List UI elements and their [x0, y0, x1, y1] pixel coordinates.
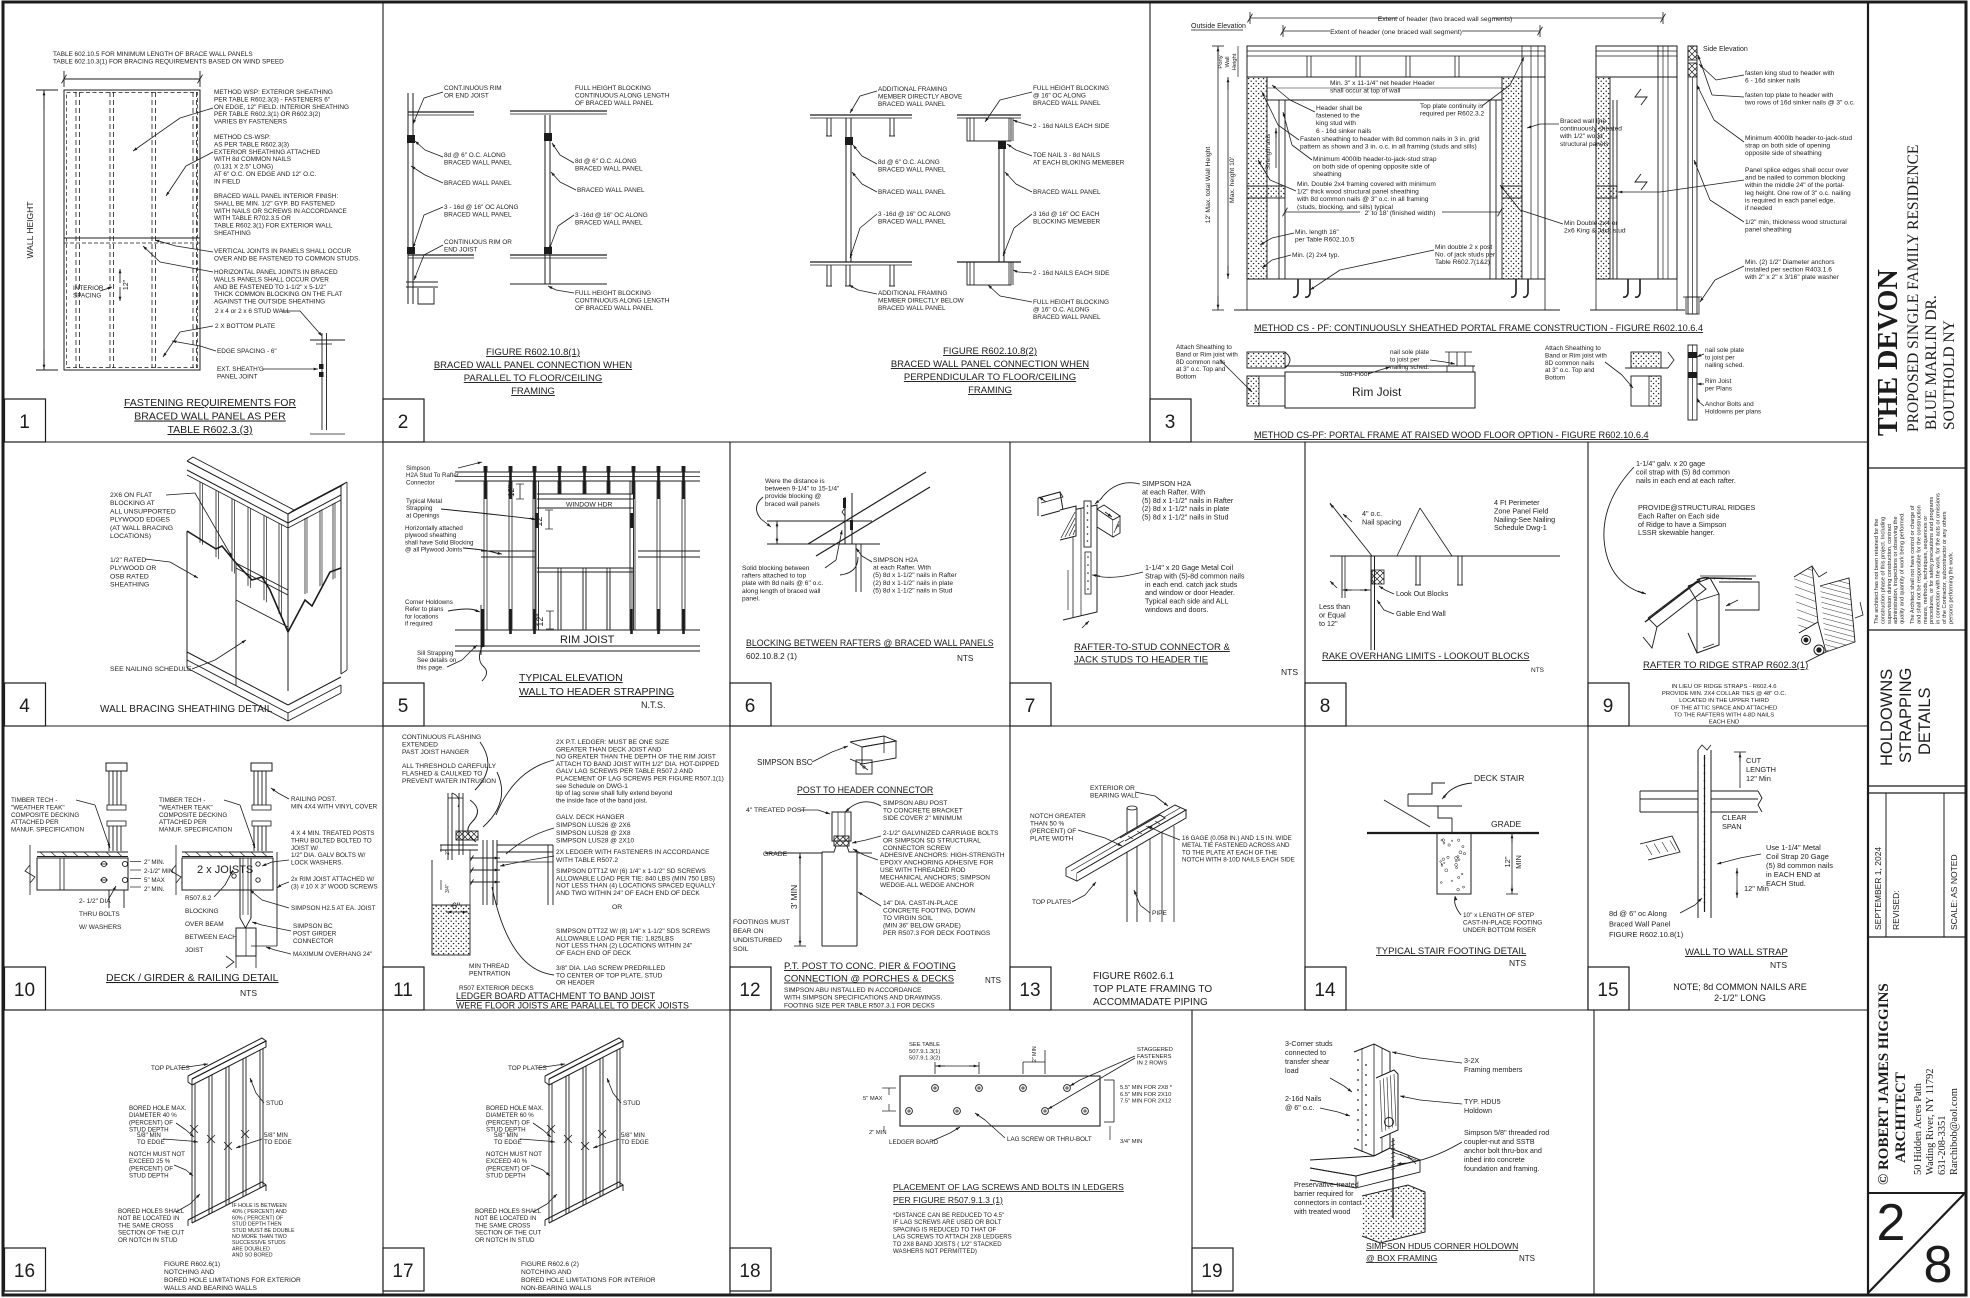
panel 3 finished width dim [1285, 211, 1360, 213]
svg-text:The Architect shall not have c: The Architect shall not have control or … [1910, 505, 1916, 624]
svg-text:PLYWOOD EDGES: PLYWOOD EDGES [110, 517, 170, 524]
grid col row4 [382, 1010, 384, 1295]
panel 3 main frame outline [1247, 46, 1545, 279]
svg-text:SOIL: SOIL [733, 946, 749, 953]
grid col row1 b [1149, 4, 1151, 443]
svg-text:2- 1/2" DIA: 2- 1/2" DIA [79, 898, 111, 905]
svg-text:NTS: NTS [1281, 667, 1298, 677]
svg-text:TABLE 602.10.5 FOR MINIMUM LEN: TABLE 602.10.5 FOR MINIMUM LENGTH OF BRA… [53, 51, 253, 58]
svg-text:OF BRACED WALL PANEL: OF BRACED WALL PANEL [575, 100, 654, 107]
panel number box 9 [1588, 683, 1629, 726]
svg-text:PROVIDE MIN. 2X4 COLLAR TIES @: PROVIDE MIN. 2X4 COLLAR TIES @ 48" O.C. [1662, 691, 1787, 697]
svg-text:per Table R602.10.5: per Table R602.10.5 [1295, 237, 1355, 244]
panel 9 ridge board box [1688, 578, 1719, 653]
svg-text:(MIN 36" BELOW GRADE): (MIN 36" BELOW GRADE) [883, 923, 961, 930]
svg-text:ADDITIONAL FRAMING: ADDITIONAL FRAMING [878, 86, 947, 93]
svg-text:SIMPSON DTT2Z W/ (8) 1/4" x 1-: SIMPSON DTT2Z W/ (8) 1/4" x 1-1/2" SDS S… [556, 928, 711, 935]
panel number box 7 [1010, 683, 1051, 726]
panel 11 flashing squiggle [468, 800, 478, 842]
svg-text:GALV. DECK HANGER: GALV. DECK HANGER [556, 814, 625, 821]
panel 15 vertical stud [1697, 750, 1699, 918]
grid col row2 [1009, 442, 1011, 726]
svg-text:(5) 8d x 1-1/2" nails in Stud: (5) 8d x 1-1/2" nails in Stud [1142, 513, 1228, 522]
svg-text:shall have Solid Blocking: shall have Solid Blocking [405, 539, 474, 546]
svg-text:BORED HOLES SHALL: BORED HOLES SHALL [475, 1208, 542, 1215]
panel 10 left bolts [101, 861, 106, 866]
svg-text:14" DIA. CAST-IN-PLACE: 14" DIA. CAST-IN-PLACE [883, 900, 959, 907]
svg-text:3 16d @ 16" OC EACH: 3 16d @ 16" OC EACH [1033, 211, 1100, 218]
panel 7 corner column jack studs [1063, 505, 1097, 620]
svg-text:BORED HOLE MAX.: BORED HOLE MAX. [486, 1105, 544, 1112]
panel 12 pier footing [822, 852, 857, 946]
panel 13 top plates diagonal beam [1066, 805, 1186, 873]
svg-text:BRACED WALL PANEL: BRACED WALL PANEL [878, 166, 946, 173]
panel 3 right leg splice block [1502, 186, 1522, 198]
svg-text:BLUE MARLIN DR.: BLUE MARLIN DR. [1923, 295, 1940, 430]
svg-text:FRAMING: FRAMING [511, 386, 555, 397]
svg-text:(PERCENT) OF: (PERCENT) OF [486, 1165, 530, 1172]
svg-text:2 - 16d NAILS EACH SIDE: 2 - 16d NAILS EACH SIDE [1033, 123, 1109, 130]
svg-text:with 2" x 2" x 3/16" plate was: with 2" x 2" x 3/16" plate washer [1744, 274, 1840, 281]
svg-text:2X6 ON FLAT: 2X6 ON FLAT [110, 492, 152, 499]
svg-text:nail sole plate: nail sole plate [1705, 347, 1745, 354]
svg-text:sheathing: sheathing [1313, 171, 1342, 178]
svg-text:BORED HOLES SHALL: BORED HOLES SHALL [118, 1208, 185, 1215]
svg-text:SHEATHING: SHEATHING [214, 230, 251, 237]
grid row line 2 [5, 725, 1869, 727]
svg-text:Top plate continuity is: Top plate continuity is [1420, 103, 1484, 110]
svg-text:CONNECTION @ PORCHES & DECKS: CONNECTION @ PORCHES & DECKS [784, 974, 954, 985]
grid col row2 [729, 442, 731, 726]
svg-text:THAN 50 %: THAN 50 % [1030, 821, 1065, 828]
svg-text:Fasten sheathing to header wit: Fasten sheathing to header with 8d commo… [1300, 136, 1480, 143]
svg-text:PIPE: PIPE [1152, 910, 1167, 917]
svg-text:GREATER THAN DECK JOIST AND: GREATER THAN DECK JOIST AND [556, 746, 662, 753]
svg-text:at 3" o.c. Top and: at 3" o.c. Top and [1545, 367, 1595, 374]
svg-text:Attach Sheathing to: Attach Sheathing to [1545, 345, 1601, 352]
svg-text:3-Corner studs: 3-Corner studs [1285, 1039, 1333, 1048]
svg-text:EXTERIOR SHEATHING ATTACHED: EXTERIOR SHEATHING ATTACHED [214, 149, 321, 156]
svg-text:CONNECTOR SCREW: CONNECTOR SCREW [883, 845, 952, 852]
svg-text:IN LIEU OF RIDGE STRAPS - R60: IN LIEU OF RIDGE STRAPS - R602.4.6 [1671, 684, 1777, 690]
lower sole plate studs [1448, 352, 1450, 366]
svg-text:3/4": 3/4" [445, 884, 451, 893]
svg-text:DIAMETER 40 %: DIAMETER 40 % [129, 1112, 177, 1119]
svg-text:PLACEMENT OF LAG SCREWS PER FI: PLACEMENT OF LAG SCREWS PER FIGURE R507.… [556, 776, 724, 783]
svg-text:between 9-1/4" to 15-1/4": between 9-1/4" to 15-1/4" [765, 486, 840, 493]
svg-text:IF HOLE IS BETWEEN: IF HOLE IS BETWEEN [232, 1203, 287, 1209]
svg-text:WITH NAILS OR SCREWS IN ACCORD: WITH NAILS OR SCREWS IN ACCORDANCE [214, 208, 347, 215]
notch and hole marks [547, 1125, 555, 1133]
svg-text:ADDITIONAL FRAMING: ADDITIONAL FRAMING [878, 290, 947, 297]
svg-text:SIMPSON H2A: SIMPSON H2A [873, 557, 919, 564]
panel number box 6 [730, 683, 771, 726]
svg-text:in connection with the work, f: in connection with the work, for the act… [1936, 493, 1942, 624]
svg-text:ALLOWABLE LOAD PER TIE: 1,825L: ALLOWABLE LOAD PER TIE: 1,825LBS [556, 935, 674, 942]
svg-text:13: 13 [1019, 980, 1040, 1001]
svg-text:SECTION OF THE CUT: SECTION OF THE CUT [118, 1230, 184, 1237]
panel 8 nail spacing arrows [1343, 514, 1352, 522]
svg-text:with 8d common nails @ 3" o.c.: with 8d common nails @ 3" o.c. in all fr… [1296, 196, 1429, 203]
svg-text:JOIST: JOIST [185, 947, 203, 954]
svg-text:Attach Sheathing to: Attach Sheathing to [1176, 344, 1232, 351]
svg-text:FIGURE R602.6.1: FIGURE R602.6.1 [1093, 971, 1175, 982]
svg-text:5/8" MIN: 5/8" MIN [621, 1132, 645, 1139]
panel 6 rafters diagonal [808, 472, 926, 544]
grid col row3 [1304, 726, 1306, 1010]
svg-text:WALL TO HEADER STRAPPING: WALL TO HEADER STRAPPING [519, 686, 674, 698]
svg-text:50 Hidden Acres Path: 50 Hidden Acres Path [1913, 1082, 1924, 1175]
svg-text:1: 1 [19, 412, 30, 433]
svg-text:N.T.S.: N.T.S. [641, 700, 666, 710]
svg-text:THE SAME CROSS: THE SAME CROSS [118, 1222, 173, 1229]
svg-text:NTS: NTS [1770, 960, 1787, 970]
svg-text:NTS: NTS [1509, 958, 1526, 968]
svg-text:Sill Strapping: Sill Strapping [417, 650, 454, 657]
panel 10 girder below [236, 928, 256, 956]
svg-text:OF EACH END OF DECK: OF EACH END OF DECK [556, 950, 632, 957]
svg-text:AGAINST THE OUTSIDE SHEATHING: AGAINST THE OUTSIDE SHEATHING [214, 299, 325, 306]
panel number box 3 [1150, 399, 1191, 442]
panel 14 grade line [1367, 832, 1539, 834]
svg-text:10" x LENGTH OF STEP: 10" x LENGTH OF STEP [1463, 912, 1534, 919]
svg-text:MEMBER DIRECTLY BELOW: MEMBER DIRECTLY BELOW [878, 297, 965, 304]
svg-text:WALLS AND BEARING WALLS: WALLS AND BEARING WALLS [164, 1285, 258, 1292]
panel 4 sheathing torn edge left wall [187, 531, 288, 632]
svg-text:WITH SIMPSON SPECIFICATIONS AN: WITH SIMPSON SPECIFICATIONS AND DRAWINGS… [784, 995, 942, 1002]
svg-text:to joist per: to joist per [1705, 354, 1735, 361]
panel 3 left dim lines [1217, 46, 1219, 310]
svg-text:MIN 4X4 WITH VINYL COVER: MIN 4X4 WITH VINYL COVER [291, 803, 378, 810]
panel 3 pony wall studs [1306, 56, 1308, 77]
grid col row1 a [382, 4, 384, 443]
svg-text:2: 2 [1877, 1194, 1906, 1252]
panel 5 blocking rows [481, 550, 535, 552]
panel 15 coil strap dotted [1704, 755, 1706, 912]
panel 5 top plates [455, 471, 700, 473]
panel number box 13 [1010, 967, 1051, 1010]
svg-text:15: 15 [1597, 980, 1618, 1001]
svg-text:shall occur at top of wall: shall occur at top of wall [1330, 88, 1401, 95]
svg-text:2" MIN.: 2" MIN. [144, 859, 165, 866]
svg-text:BORED HOLE LIMITATIONS FOR INT: BORED HOLE LIMITATIONS FOR INTERIOR [521, 1277, 656, 1284]
svg-text:NTS: NTS [240, 988, 257, 998]
svg-text:TO 2X8 BAND JOISTS ( 1/2" STAC: TO 2X8 BAND JOISTS ( 1/2" STACKED [893, 1241, 1002, 1248]
lower main rim joist band [1285, 365, 1475, 367]
svg-text:2-1/2" MIN.: 2-1/2" MIN. [144, 868, 175, 875]
svg-text:Minimum 4000lb header-to-jack-: Minimum 4000lb header-to-jack-stud [1745, 135, 1852, 142]
svg-text:per Plans: per Plans [1705, 385, 1732, 392]
svg-text:BRACED WALL PANEL CONNECTION W: BRACED WALL PANEL CONNECTION WHEN [434, 360, 632, 371]
panel 15 crossing wall left [1640, 790, 1698, 792]
svg-text:2" MIN: 2" MIN [1032, 1046, 1038, 1062]
svg-text:fastened to the: fastened to the [1316, 113, 1360, 120]
svg-text:RIM JOIST: RIM JOIST [560, 634, 615, 646]
svg-text:SEE NAILING SCHEDULE: SEE NAILING SCHEDULE [110, 666, 192, 673]
svg-text:COMPOSITE DECKING: COMPOSITE DECKING [159, 812, 227, 819]
title block section dividers [1868, 467, 1966, 469]
svg-text:PER TABLE R602.3(1) OR R602.3(: PER TABLE R602.3(1) OR R602.3(2) [214, 111, 320, 118]
panel 15 crossing wall right with break [1711, 790, 1758, 792]
svg-text:Band or Rim joist with: Band or Rim joist with [1545, 352, 1607, 359]
panel 6 blocking studs [844, 497, 846, 544]
svg-text:(PERCENT) OF: (PERCENT) OF [1030, 828, 1076, 835]
svg-text:construction phase of this pro: construction phase of this project. Incl… [1880, 517, 1886, 624]
svg-text:INTERIOR: INTERIOR [73, 285, 104, 292]
svg-text:PREVENT WATER INTRUSION: PREVENT WATER INTRUSION [402, 778, 496, 785]
svg-text:TOP PLATES: TOP PLATES [508, 1065, 547, 1072]
svg-text:panel.: panel. [742, 595, 760, 602]
svg-text:and shall not be responsible f: and shall not be responsible for the con… [1916, 505, 1922, 624]
svg-text:STRAPPING: STRAPPING [1897, 668, 1915, 763]
svg-text:8d @ 6" O.C. ALONG: 8d @ 6" O.C. ALONG [575, 158, 637, 165]
grid row line 1 [5, 441, 1869, 443]
svg-text:Holdowns per plans: Holdowns per plans [1705, 408, 1761, 415]
svg-text:TO VIRGIN SOIL: TO VIRGIN SOIL [883, 915, 933, 922]
panel 10 4x4 post and girder [239, 858, 241, 918]
svg-text:WALLS PANELS SHALL OCCUR OVER: WALLS PANELS SHALL OCCUR OVER [214, 276, 329, 283]
svg-text:6 - 16d sinker nails: 6 - 16d sinker nails [1316, 128, 1372, 135]
svg-text:(PERCENT) OF: (PERCENT) OF [129, 1119, 173, 1126]
svg-text:Side Elevation: Side Elevation [1703, 46, 1748, 53]
panel 13 metal tie [1120, 815, 1165, 841]
panel 12 3min dim [799, 853, 801, 946]
svg-text:NTS: NTS [957, 654, 974, 663]
svg-text:see Schedule on DWG-1: see Schedule on DWG-1 [556, 783, 628, 790]
svg-text:THE DEVON: THE DEVON [1873, 269, 1904, 436]
grid col row3 [1587, 726, 1589, 1010]
panel number box 4 [5, 683, 46, 726]
svg-text:5" MAX: 5" MAX [863, 1096, 883, 1102]
panel 3 middle condensed braced segment [1596, 46, 1677, 279]
svg-text:AND SO BORED: AND SO BORED [232, 1253, 273, 1259]
svg-text:8d @ 6" O.C. ALONG: 8d @ 6" O.C. ALONG [444, 152, 506, 159]
svg-text:FOOTING SIZE PER TABLE R507.3.: FOOTING SIZE PER TABLE R507.3.1 FOR DECK… [784, 1003, 935, 1010]
panel 11 deck joist [497, 851, 553, 853]
svg-text:STAGGERED: STAGGERED [1137, 1047, 1173, 1053]
svg-text:NOT LESS THAN (2) LOCATIONS WI: NOT LESS THAN (2) LOCATIONS WITHIN 24" [556, 943, 693, 950]
studs [191, 1085, 193, 1223]
svg-text:RAILING POST.: RAILING POST. [291, 796, 336, 803]
svg-text:4 X 4 MIN. TREATED POSTS: 4 X 4 MIN. TREATED POSTS [291, 830, 374, 837]
svg-text:NOT BE LOCATED IN: NOT BE LOCATED IN [118, 1215, 179, 1222]
svg-text:TO THE PLATE AT EACH OF THE: TO THE PLATE AT EACH OF THE [1182, 849, 1277, 856]
svg-text:SEE TABLE: SEE TABLE [909, 1042, 940, 1048]
panel 5 corner holdown mark [481, 609, 485, 647]
panel 1 braced wall rectangle [64, 90, 200, 370]
panel 6 plate lines [767, 520, 872, 522]
svg-text:STUD MUST BE DOUBLE: STUD MUST BE DOUBLE [232, 1228, 295, 1234]
svg-text:MAXIMUM OVERHANG 24": MAXIMUM OVERHANG 24" [293, 951, 372, 958]
svg-text:Solid blocking between: Solid blocking between [742, 565, 810, 572]
panel 7 H2A strap with nails [1084, 501, 1091, 547]
svg-text:BRACED WALL PANEL: BRACED WALL PANEL [878, 305, 946, 312]
svg-text:Min. 3" x 11-1/4" net header H: Min. 3" x 11-1/4" net header Header [1330, 80, 1435, 87]
svg-text:FIGURE R602.6 (2): FIGURE R602.6 (2) [521, 1261, 579, 1268]
panel 8 block hatch [1372, 570, 1384, 584]
svg-text:LSSR skewable hanger.: LSSR skewable hanger. [1638, 528, 1715, 537]
svg-text:8D common nails: 8D common nails [1545, 360, 1594, 367]
svg-text:(PERCENT) OF: (PERCENT) OF [486, 1119, 530, 1126]
svg-text:FIGURE R602.10.8(1): FIGURE R602.10.8(1) [1609, 930, 1684, 939]
svg-text:SIDE COVER 2" MINIMUM: SIDE COVER 2" MINIMUM [883, 815, 962, 822]
svg-text:BEAR ON: BEAR ON [733, 928, 764, 935]
panel 12 main post [832, 812, 851, 841]
svg-text:NTS: NTS [1531, 667, 1545, 674]
svg-text:LEDGER BOARD: LEDGER BOARD [889, 1139, 939, 1146]
panel 4 left blocking rows [236, 563, 288, 590]
svg-text:Min double 2 x post: Min double 2 x post [1435, 244, 1492, 251]
svg-text:strap on both side of opening: strap on both side of opening [1745, 143, 1830, 150]
svg-text:Table R602.7(1&2): Table R602.7(1&2) [1435, 259, 1490, 266]
svg-text:barrier required for: barrier required for [1294, 1189, 1354, 1198]
svg-text:PARALLEL TO FLOOR/CEILING: PARALLEL TO FLOOR/CEILING [464, 373, 603, 384]
svg-text:Pony: Pony [1218, 55, 1224, 68]
svg-text:OR NOTCH IN STUD: OR NOTCH IN STUD [475, 1237, 535, 1244]
panel 3 left leg splice block [1247, 186, 1285, 198]
svg-text:to joist per: to joist per [1390, 356, 1420, 363]
svg-text:(5) 8d x 1-1/2" nails in Rafte: (5) 8d x 1-1/2" nails in Rafter [873, 572, 958, 579]
svg-text:SIMPSON H2.5 AT EA. JOIST: SIMPSON H2.5 AT EA. JOIST [291, 905, 376, 912]
panel 10 right break line [175, 845, 177, 895]
panel 19 corner stud pack [1354, 1044, 1390, 1156]
svg-text:FULL HEIGHT BLOCKING: FULL HEIGHT BLOCKING [575, 290, 651, 297]
svg-text:ARE DOUBLED: ARE DOUBLED [232, 1246, 270, 1252]
svg-text:EXCEED 40 %: EXCEED 40 % [486, 1158, 528, 1165]
svg-text:DETAILS: DETAILS [1916, 687, 1934, 755]
svg-text:braced wall panels: braced wall panels [765, 501, 820, 508]
panel 11 house wall studs [447, 793, 449, 860]
svg-text:LOCATED IN THE UPPER THIRD: LOCATED IN THE UPPER THIRD [1679, 698, 1769, 704]
svg-text:STUD DEPTH THEN: STUD DEPTH THEN [232, 1222, 282, 1228]
svg-text:(PERCENT) OF: (PERCENT) OF [129, 1165, 173, 1172]
svg-text:opposite side of sheathing: opposite side of sheathing [1745, 150, 1822, 157]
svg-text:SIMPSON ABU POST: SIMPSON ABU POST [883, 800, 947, 807]
svg-text:12: 12 [739, 980, 760, 1001]
svg-text:12" Min: 12" Min [1746, 774, 1771, 783]
svg-text:Corner Holdowns: Corner Holdowns [405, 599, 453, 606]
svg-text:12' Max. total Wall Height: 12' Max. total Wall Height [1205, 147, 1212, 224]
svg-text:Wall: Wall [1225, 56, 1231, 67]
panel 13 studs below [1149, 826, 1151, 922]
svg-text:ALL THRESHOLD CAREFULLY: ALL THRESHOLD CAREFULLY [402, 763, 497, 770]
svg-text:BRACED WALL PANEL: BRACED WALL PANEL [1033, 314, 1101, 321]
svg-text:OF THE ATTIC SPACE AND ATTACHE: OF THE ATTIC SPACE AND ATTACHED [1671, 705, 1777, 711]
svg-text:BLOCKING: BLOCKING [185, 908, 219, 915]
svg-text:8: 8 [1320, 696, 1331, 717]
railing post [251, 763, 272, 771]
svg-text:TO EDGE: TO EDGE [494, 1139, 522, 1146]
svg-text:"WEATHER TEAK": "WEATHER TEAK" [11, 804, 65, 811]
svg-text:PLACEMENT OF LAG SCREWS AND BO: PLACEMENT OF LAG SCREWS AND BOLTS IN LED… [893, 1182, 1124, 1192]
svg-text:SIMPSON BSC: SIMPSON BSC [757, 758, 813, 767]
svg-text:CLEAR: CLEAR [1722, 813, 1747, 822]
panel 4 sheathing torn edge right wall [288, 568, 341, 632]
panel 12 bsc bracket icon [850, 736, 896, 747]
panel number box 15 [1588, 967, 1629, 1010]
panel 4 sheathing panels left [186, 531, 188, 660]
svg-text:BLOCKING MEMEBER: BLOCKING MEMEBER [1033, 218, 1100, 225]
svg-text:Extent of header (one braced w: Extent of header (one braced wall segmen… [1330, 29, 1462, 36]
panel 1 top dimension line [64, 78, 200, 80]
svg-text:WASHERS NOT PERMITTED): WASHERS NOT PERMITTED) [893, 1248, 977, 1255]
panel 4 right wall top plate [288, 486, 341, 523]
panel 7 column bottom arrow [1082, 621, 1089, 628]
panel 4 bottom skirt [186, 660, 188, 668]
svg-text:2 X BOTTOM PLATE: 2 X BOTTOM PLATE [215, 323, 275, 330]
svg-text:windows and doors.: windows and doors. [1144, 605, 1209, 614]
svg-text:NTS: NTS [985, 976, 1001, 985]
svg-text:AND BE FASTENED TO 1-1/2" x 5-: AND BE FASTENED TO 1-1/2" x 5-1/2" [214, 284, 326, 291]
svg-text:5: 5 [398, 696, 409, 717]
svg-text:Min. (2) 1/2" Diameter anchors: Min. (2) 1/2" Diameter anchors [1745, 259, 1835, 266]
svg-text:BRACED WALL PANEL: BRACED WALL PANEL [444, 159, 512, 166]
svg-text:12": 12" [1503, 856, 1512, 867]
svg-text:@ 16" OC ALONG: @ 16" OC ALONG [1033, 92, 1086, 99]
svg-text:means, methods, techniques, se: means, methods, techniques, sequences or [1923, 516, 1929, 624]
panel 1 post joint detail [310, 339, 345, 341]
svg-text:CONNECTOR: CONNECTOR [293, 938, 334, 945]
notch and hole marks [190, 1125, 198, 1133]
svg-text:SIMPSON HDU5 CORNER HOLDOWN: SIMPSON HDU5 CORNER HOLDOWN [1366, 1241, 1518, 1251]
grid row line 3 [5, 1009, 1869, 1011]
railing post [106, 763, 127, 771]
svg-text:NOT LESS THAN (4) LOCATIONS SP: NOT LESS THAN (4) LOCATIONS SPACED EQUAL… [556, 883, 716, 890]
svg-text:required per R602.3.2: required per R602.3.2 [1420, 111, 1484, 118]
panel 1 stud dashed lines [75, 92, 77, 368]
svg-text:Min. Double 2x4 framing covere: Min. Double 2x4 framing covered with min… [1297, 181, 1436, 188]
panel 9 right rafter outline rect [1719, 582, 1759, 610]
svg-text:See details on: See details on [417, 657, 457, 664]
grid col row2 [382, 442, 384, 726]
panel 11 foundation [431, 860, 433, 955]
svg-text:LOCK WASHERS.: LOCK WASHERS. [291, 860, 344, 867]
svg-text:3/8" DIA. LAG SCREW PREDRILLED: 3/8" DIA. LAG SCREW PREDRILLED [556, 965, 666, 972]
panel 4 corner post and right edge [287, 514, 289, 691]
svg-text:transfer shear: transfer shear [1285, 1057, 1330, 1066]
grid col row3 [729, 726, 731, 1010]
svg-text:Header shall be: Header shall be [1316, 105, 1363, 112]
svg-text:is required in each panel edge: is required in each panel edge. [1745, 197, 1835, 204]
svg-text:No. of jack studs per: No. of jack studs per [1435, 252, 1496, 259]
svg-text:3 - 16d @ 16" OC ALONG: 3 - 16d @ 16" OC ALONG [444, 204, 518, 211]
svg-text:2: 2 [398, 412, 409, 433]
svg-text:Rarchibob@aol.com: Rarchibob@aol.com [1949, 1088, 1960, 1175]
svg-text:CAST-IN-PLACE FOOTING: CAST-IN-PLACE FOOTING [1463, 919, 1542, 926]
panel 8 rake diagonal [1330, 503, 1372, 556]
svg-text:USE WITH THREADED ROD: USE WITH THREADED ROD [880, 867, 966, 874]
svg-text:SECTION OF THE CUT: SECTION OF THE CUT [475, 1230, 541, 1237]
svg-text:foundation and framing.: foundation and framing. [1464, 1164, 1540, 1173]
panel 5 rim joist band [455, 629, 700, 631]
svg-text:WINDOW HDR: WINDOW HDR [566, 502, 613, 509]
panel 1 12in dim arrow [119, 269, 121, 283]
svg-text:TABLE R602.3(1) FOR EXTERIOR W: TABLE R602.3(1) FOR EXTERIOR WALL [214, 223, 333, 230]
svg-text:SIMPSON LUS28 @ 2X10: SIMPSON LUS28 @ 2X10 [556, 838, 634, 845]
svg-text:R507.6.2: R507.6.2 [185, 895, 212, 902]
panel 10 left break line [29, 845, 31, 895]
svg-text:TYPICAL STAIR FOOTING DETAIL: TYPICAL STAIR FOOTING DETAIL [1376, 946, 1526, 957]
svg-text:16 GAGE (0.058 IN.) AND 1.5 IN: 16 GAGE (0.058 IN.) AND 1.5 IN. WIDE [1182, 835, 1292, 842]
svg-text:CONTINUOUS ALONG LENGTH: CONTINUOUS ALONG LENGTH [575, 92, 670, 99]
svg-text:AT 6" O.C. ON EDGE AND 12" O.: AT 6" O.C. ON EDGE AND 12" O.C. [214, 171, 317, 178]
svg-text:"WEATHER TEAK": "WEATHER TEAK" [159, 804, 213, 811]
svg-text:UNDER BOTTOM RISER: UNDER BOTTOM RISER [1463, 927, 1536, 934]
svg-text:at Openings: at Openings [406, 512, 439, 519]
panel 19 hdu5 holdown device [1376, 1070, 1398, 1138]
svg-text:BRACED WALL PANEL: BRACED WALL PANEL [1033, 189, 1101, 196]
svg-text:CONTINUOUS ALONG LENGTH: CONTINUOUS ALONG LENGTH [575, 297, 670, 304]
